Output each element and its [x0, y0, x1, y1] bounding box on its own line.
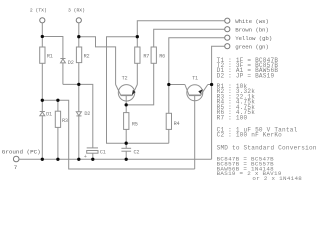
- wire D2b top lead: [78, 84, 80, 111]
- svg-text:R3: R3: [62, 118, 68, 124]
- wire C2 bottom lead: [125, 151, 127, 159]
- terminal White (ws): [225, 18, 230, 23]
- terminal 2 (TX): [40, 18, 45, 23]
- wire TX node to D2a top: [42, 37, 63, 59]
- svg-text:C2 : 100 nF KerKo: C2 : 100 nF KerKo: [217, 132, 283, 139]
- svg-text:R4: R4: [174, 121, 180, 127]
- svg-text:R7: R7: [143, 54, 149, 60]
- wire R7 bottom to T2 emitter: [136, 63, 138, 84]
- svg-text:White (ws): White (ws): [235, 18, 269, 25]
- junction dot T1 collector yellow: [167, 83, 170, 86]
- wire Yellow terminal to T1 collector and R4: [169, 38, 225, 114]
- wire TX terminal down to R1: [41, 23, 43, 47]
- wire T1-base node horizontal and down and along bottom to T1 base: [42, 100, 194, 169]
- wire node to D1 top: [41, 100, 43, 111]
- terminal 3 (RX): [76, 18, 81, 23]
- resistor R6: [151, 47, 156, 63]
- svg-text:Brown (bn): Brown (bn): [235, 26, 269, 33]
- terminal Ground (PC) pin 7: [13, 156, 19, 162]
- svg-text:T1: T1: [192, 75, 198, 81]
- junction dot White R7 node: [136, 35, 139, 38]
- capacitor C1 tantalum polarized: [87, 148, 98, 153]
- junction dot R5 C2 R4 node: [125, 142, 128, 145]
- svg-text:D2: D2: [84, 111, 90, 117]
- svg-text:+: +: [84, 154, 87, 160]
- svg-text:Ground (PC): Ground (PC): [2, 149, 41, 156]
- wire R6 bottom to T2 base node: [126, 63, 154, 105]
- junction dot T2 base node: [125, 103, 128, 106]
- resistor R2: [76, 47, 81, 63]
- junction dot TX node: [41, 35, 44, 38]
- svg-text:C1: C1: [100, 149, 106, 155]
- junction dot T1 emitter green: [210, 83, 213, 86]
- junction dot ground C1: [91, 158, 94, 161]
- wire RX node staircase to T2 collector: [79, 37, 116, 85]
- wire ground rail: [19, 158, 212, 160]
- svg-text:R7 : 100: R7 : 100: [217, 115, 248, 122]
- transistor T1 NPN BC847B: [185, 85, 208, 101]
- wire R4 bottom lead: [168, 129, 170, 143]
- junction dot ground R3: [56, 158, 59, 161]
- svg-text:D2 : JP = BAS19: D2 : JP = BAS19: [217, 73, 275, 80]
- diode D2 lower (cathode down): [76, 112, 81, 116]
- svg-text:C2: C2: [134, 149, 140, 155]
- junction dot ground D2: [77, 158, 80, 161]
- junction dot D1 R1 node: [41, 99, 44, 102]
- svg-text:2 (TX): 2 (TX): [30, 8, 47, 14]
- junction dot clamp node R2 D2: [77, 83, 80, 86]
- wire R5 bottom lead: [125, 129, 127, 143]
- terminal Yellow (gb): [225, 35, 230, 40]
- wire D1 bottom to ground rail: [41, 116, 43, 160]
- resistor R1: [40, 47, 45, 63]
- svg-text:3 (RX): 3 (RX): [68, 8, 85, 14]
- junction dot RX node: [77, 35, 80, 38]
- svg-text:7: 7: [14, 164, 18, 171]
- resistor R3: [55, 111, 60, 127]
- wire Brown terminal to R6 top: [154, 29, 225, 47]
- wire C1 bottom lead: [92, 153, 94, 159]
- wire T2 base down to node: [125, 95, 127, 112]
- svg-text:R6: R6: [159, 54, 165, 60]
- terminal Brown (bn): [225, 27, 230, 32]
- transistor T2 PNP BC857B: [116, 85, 138, 102]
- svg-text:or 2 x 1N4148: or 2 x 1N4148: [252, 175, 302, 182]
- resistor R7: [135, 47, 140, 63]
- wire D2a bottom lead: [62, 63, 64, 84]
- wire T1 base down to bottom rail: [194, 95, 196, 169]
- wire R3 bottom to ground rail: [57, 127, 59, 159]
- svg-text:SMD to Standard Conversion: SMD to Standard Conversion: [217, 144, 317, 151]
- wire White terminal to R7 top: [137, 21, 224, 47]
- diode D2 upper (cathode up): [60, 59, 65, 63]
- svg-text:R5: R5: [132, 121, 138, 127]
- junction dot ground C2: [125, 158, 128, 161]
- diode D1 (cathode up): [40, 112, 45, 116]
- wire R3 top lead: [57, 100, 59, 111]
- wire supply node x106 column: [107, 37, 169, 144]
- svg-text:R1: R1: [47, 54, 53, 60]
- svg-text:R2: R2: [84, 54, 90, 60]
- wire RX terminal down to R2: [78, 23, 80, 47]
- wire clamp node horizontal to C1 top: [63, 84, 93, 147]
- parts list text block: [217, 57, 317, 182]
- svg-text:T2: T2: [122, 75, 128, 81]
- resistor R5: [124, 113, 129, 130]
- wire C2 top lead: [125, 143, 127, 148]
- wire green terminal down to ground rail: [212, 46, 225, 159]
- wire D2b bottom to ground rail: [78, 116, 80, 159]
- svg-text:green (gn): green (gn): [235, 43, 269, 50]
- wire R2 bottom to clamp node: [78, 63, 80, 85]
- wire T1 collector horizontal: [169, 84, 185, 86]
- capacitor C2 ceramic: [121, 148, 131, 151]
- svg-text:D2: D2: [68, 60, 74, 66]
- wire T1 emitter horizontal: [208, 84, 212, 86]
- junction dot R3 top node: [56, 99, 59, 102]
- junction dot ground D1: [41, 158, 44, 161]
- terminal green (gn): [225, 44, 230, 49]
- wire R1 bottom to T1-base node: [41, 63, 43, 100]
- resistor R4: [166, 113, 171, 129]
- svg-text:D1: D1: [46, 111, 52, 117]
- svg-text:Yellow (gb): Yellow (gb): [235, 35, 272, 42]
